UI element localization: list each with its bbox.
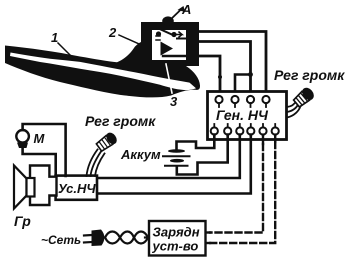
switch arrow bbox=[176, 32, 182, 37]
svg-text:Рег громк: Рег громк bbox=[274, 67, 345, 83]
loudspeaker cone bbox=[14, 166, 27, 209]
arrow A bbox=[169, 8, 183, 21]
top terminal stems bbox=[219, 103, 266, 107]
generator box Ген.НЧ bbox=[208, 92, 287, 140]
svg-text:Гр: Гр bbox=[14, 213, 31, 229]
switch lever bbox=[158, 28, 174, 35]
battery plates bbox=[168, 149, 185, 153]
wire C bbox=[195, 56, 220, 95]
right volume knob wires bbox=[287, 101, 301, 118]
svg-text:Зарядн: Зарядн bbox=[153, 225, 200, 240]
speaker housing bbox=[30, 166, 57, 206]
svg-text:3: 3 bbox=[170, 94, 178, 109]
svg-text:Аккум: Аккум bbox=[120, 147, 161, 162]
cord from plug to charger bbox=[105, 232, 148, 244]
junction dot wire C bbox=[218, 75, 222, 79]
microphone M bbox=[16, 130, 29, 143]
contact dot right bbox=[171, 32, 176, 37]
junction node wireB bbox=[248, 72, 253, 77]
left volume knob bbox=[95, 131, 119, 153]
mic wire 1 bbox=[23, 124, 66, 176]
svg-text:уст-во: уст-во bbox=[152, 239, 199, 254]
earphone triangle bbox=[161, 42, 174, 56]
svg-text:Рег громк: Рег громк bbox=[85, 113, 156, 129]
capsule button bbox=[162, 16, 174, 25]
earphone capsule box 2 bbox=[142, 22, 199, 66]
svg-text:М: М bbox=[34, 131, 46, 146]
speaker driver bbox=[27, 178, 35, 197]
line to right border bbox=[163, 55, 186, 57]
charger box Зарядн уст-во bbox=[149, 221, 206, 256]
amplifier box Ус.НЧ bbox=[56, 176, 97, 200]
top terminals bbox=[215, 96, 269, 103]
svg-text:2: 2 bbox=[108, 25, 117, 40]
battery wire top (terminal 1) bbox=[177, 135, 215, 150]
wire B bbox=[197, 42, 251, 96]
mic wire 2 bbox=[23, 148, 56, 176]
bottom terminal stems bbox=[214, 124, 275, 127]
mains plug bbox=[84, 235, 92, 243]
horn tube body bbox=[5, 22, 200, 97]
dashed wire terminal 5 to charger bbox=[262, 135, 264, 144]
bottom terminals bbox=[211, 127, 279, 134]
svg-text:Ус.НЧ: Ус.НЧ bbox=[58, 181, 96, 196]
contact dot left bbox=[156, 31, 161, 36]
svg-text:~Сеть: ~Сеть bbox=[41, 233, 81, 247]
leader 2 bbox=[119, 35, 143, 46]
dashed wire terminal 6 to charger bbox=[274, 135, 276, 142]
wire A top bbox=[197, 32, 266, 96]
horn highlight stripe bbox=[10, 53, 196, 91]
wire stub to border bbox=[177, 38, 186, 40]
svg-text:1: 1 bbox=[51, 30, 58, 45]
right volume knob bbox=[292, 85, 316, 108]
amplifier wires to terminals 3,4 bbox=[97, 135, 240, 178]
left volume knob wires bbox=[87, 150, 105, 177]
leader 3 bbox=[166, 64, 172, 93]
contact hatch marks bbox=[156, 36, 160, 40]
svg-text:А: А bbox=[181, 2, 191, 17]
wire terminal2 to wireB junction bbox=[235, 75, 251, 96]
battery wire bottom (terminal 2) bbox=[177, 135, 228, 175]
leader 1 bbox=[58, 43, 70, 55]
svg-text:Ген. НЧ: Ген. НЧ bbox=[216, 107, 269, 123]
